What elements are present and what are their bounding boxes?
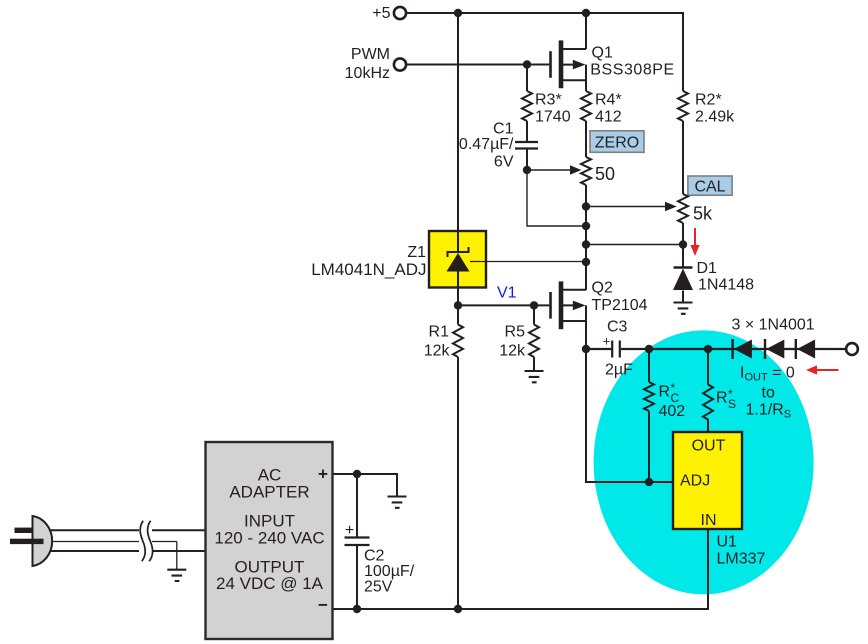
svg-text:412: 412 [595, 109, 622, 126]
svg-text:Q1: Q1 [592, 44, 613, 61]
svg-text:50: 50 [595, 164, 615, 184]
svg-text:R2*: R2* [695, 92, 722, 109]
svg-text:ADJ: ADJ [680, 473, 710, 490]
svg-text:1740: 1740 [535, 109, 571, 126]
svg-text:+: + [603, 334, 611, 349]
svg-text:to: to [762, 385, 775, 402]
svg-text:U1: U1 [717, 534, 738, 551]
svg-text:R1: R1 [429, 324, 450, 341]
svg-text:2.49k: 2.49k [695, 109, 735, 126]
svg-text:IN: IN [701, 512, 717, 529]
svg-text:25V: 25V [364, 579, 393, 596]
svg-text:+5: +5 [372, 5, 390, 22]
svg-text:Q2: Q2 [592, 280, 613, 297]
svg-text:3 × 1N4001: 3 × 1N4001 [732, 317, 815, 334]
svg-text:+: + [318, 465, 328, 484]
svg-text:1N4148: 1N4148 [698, 277, 754, 294]
svg-text:R4*: R4* [595, 92, 622, 109]
svg-text:10kHz: 10kHz [345, 65, 390, 82]
svg-text:120 - 240 VAC: 120 - 240 VAC [214, 528, 324, 547]
svg-text:LM4041N_ADJ: LM4041N_ADJ [311, 260, 426, 279]
svg-text:D1: D1 [697, 260, 718, 277]
svg-text:R: R [659, 384, 671, 401]
svg-text:ZERO: ZERO [595, 134, 639, 151]
svg-text:6V: 6V [494, 154, 514, 171]
svg-text:0.47µF/: 0.47µF/ [459, 136, 514, 153]
svg-text:OUT: OUT [692, 438, 726, 455]
svg-text:ADAPTER: ADAPTER [229, 482, 309, 501]
svg-text:12k: 12k [499, 343, 526, 360]
svg-text:402: 402 [659, 403, 686, 420]
svg-text:5k: 5k [693, 204, 713, 224]
svg-text:24 VDC @ 1A: 24 VDC @ 1A [216, 574, 324, 593]
svg-text:2µF: 2µF [605, 362, 633, 379]
svg-text:PWM: PWM [351, 46, 390, 63]
svg-text:100µF/: 100µF/ [364, 563, 415, 580]
svg-text:BSS308PE: BSS308PE [590, 62, 674, 79]
svg-text:R: R [716, 390, 728, 407]
svg-text:C2: C2 [364, 548, 385, 565]
svg-text:12k: 12k [424, 343, 451, 360]
svg-text:Z1: Z1 [407, 244, 426, 261]
svg-text:TP2104: TP2104 [592, 297, 648, 314]
svg-text:V1: V1 [497, 285, 517, 302]
svg-text:R3*: R3* [535, 92, 562, 109]
svg-text:LM337: LM337 [717, 551, 766, 568]
svg-text:S: S [728, 397, 736, 411]
svg-text:CAL: CAL [694, 178, 725, 195]
svg-text:R5: R5 [505, 324, 526, 341]
svg-text:−: − [318, 596, 328, 615]
svg-text:+: + [345, 522, 354, 539]
